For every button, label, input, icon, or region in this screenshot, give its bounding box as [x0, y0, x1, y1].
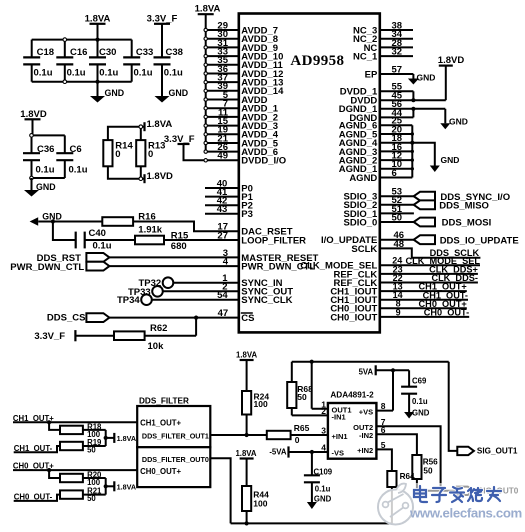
pin 22 wire / net CLK_DDS- [380, 273, 478, 283]
port SIG_OUT0 [457, 487, 519, 496]
svg-text:0.1u: 0.1u [164, 68, 183, 79]
wire DDS_RST to pin3 [109, 256, 238, 258]
wire R21 right [83, 494, 106, 496]
capacitor C33 0.1u [123, 40, 153, 82]
capacitor C36 0.1u [23, 135, 55, 178]
junction [51, 219, 55, 223]
junction dots cap bank [63, 38, 100, 84]
wire R44 bottom [246, 511, 248, 523]
port DDS_SYNC_I/O [414, 192, 510, 203]
svg-text:CS: CS [241, 313, 254, 324]
pin 24 wire / net CLK_MODE_SEL [380, 256, 481, 266]
ground (C38) [155, 88, 189, 103]
junction [47, 468, 51, 472]
pin 56 wire [380, 99, 446, 110]
svg-text:-IN2: -IN2 [359, 431, 373, 440]
wire AVDD vertical bus [205, 14, 207, 151]
resistor R56 50 [412, 455, 438, 479]
capacitor C30 0.1u [89, 40, 119, 82]
testpoint TP32 [138, 277, 173, 289]
port DDS_MISO [414, 200, 489, 211]
svg-text:GND: GND [314, 495, 332, 504]
pin 53 wire [380, 187, 414, 198]
svg-text:SIG_OUT1: SIG_OUT1 [477, 447, 518, 456]
wire R18 right [83, 429, 106, 431]
op-amp U2 ADA4891-2 body [328, 390, 377, 458]
wire R19 right [83, 445, 106, 447]
power 5VA [359, 365, 376, 376]
capacitor C18 0.1u [23, 40, 54, 82]
svg-text:1.8VA: 1.8VA [85, 13, 111, 24]
ground (C36 block) [24, 178, 56, 197]
svg-text:CH1_OUT+: CH1_OUT+ [140, 418, 181, 427]
wire to R18 [49, 422, 60, 430]
svg-text:1.91k: 1.91k [138, 225, 162, 236]
testpoint TP34 [117, 294, 152, 306]
junction [411, 107, 415, 111]
wire R20-R21 vertical [105, 478, 107, 495]
wires AVDD pin stubs with pin numbers [204, 20, 239, 162]
ground (DAC_RSET) [30, 212, 62, 226]
junction [391, 368, 395, 372]
junction [411, 98, 415, 102]
wire R18-R19 vertical [105, 430, 107, 446]
net CH0_OUT+ (left) [13, 462, 137, 471]
wire GND to R16 [38, 221, 102, 223]
resistor R64 [387, 471, 415, 487]
svg-text:DDS_MOSI: DDS_MOSI [442, 218, 492, 229]
svg-text:100: 100 [253, 498, 267, 508]
svg-text:C38: C38 [166, 47, 183, 58]
wire R14-R13 bottom bus [108, 166, 145, 178]
wire -5VA to -VS [289, 451, 328, 453]
svg-text:CH0_IOUT: CH0_IOUT [330, 312, 377, 323]
wire +IN2 to R64 [376, 449, 392, 471]
svg-text:GND: GND [169, 88, 189, 98]
ground (DGND) [440, 109, 468, 130]
wire OUT1 stub [312, 408, 328, 410]
resistor R62 10k [114, 323, 167, 352]
wire R64 bottom [391, 487, 393, 523]
svg-text:0.1u: 0.1u [67, 68, 86, 79]
svg-text:C16: C16 [70, 47, 87, 58]
IC left pin names [241, 25, 319, 324]
wire R56 bottom [416, 479, 418, 491]
pin number 17 [217, 222, 228, 233]
net DDS_FILTER_OUT0 wire [210, 458, 230, 523]
svg-text:TP34: TP34 [117, 295, 140, 306]
power 1.8VA (R13 top) [139, 119, 172, 131]
svg-text:R65: R65 [294, 423, 310, 433]
capacitor C69 0.1u [401, 370, 428, 412]
capacitor C109 0.1u [304, 452, 333, 502]
wire R24 bottom [246, 415, 248, 436]
svg-text:3: 3 [321, 426, 326, 436]
svg-text:ADA4891-2: ADA4891-2 [330, 390, 374, 399]
wire 3.3V_F to pin49 [184, 144, 205, 160]
wire TP34 to pin54 SYNC_CLK [152, 299, 239, 301]
wire TP32 to pin1 SYNC_IN [173, 282, 239, 284]
wires NC pins 38/34/28/32 [380, 20, 413, 57]
junction [104, 436, 108, 440]
junction [245, 521, 249, 525]
op-amp pin names [332, 405, 374, 457]
svg-text:SCLK: SCLK [351, 244, 377, 255]
wire TP33 to pin2 SYNC_OUT [163, 290, 239, 292]
wire C36/C6 bottom bus [32, 177, 65, 179]
pin 8 wire / net CH0_OUT+ [380, 299, 467, 309]
svg-text:0.1u: 0.1u [315, 485, 331, 494]
wire R62 to CS net [145, 335, 197, 337]
svg-text:0: 0 [295, 435, 300, 445]
power 3.3V_F (R62) [34, 330, 75, 342]
svg-text:PWR_DWN_CTL: PWR_DWN_CTL [10, 262, 84, 273]
block DDS_FILTER upper [137, 396, 210, 447]
ground (AGND) [412, 143, 459, 172]
power 1.8VA (R44) [235, 449, 256, 486]
svg-text:C69: C69 [412, 376, 427, 385]
op-amp pin numbers [321, 399, 386, 452]
wire 3.3V_F to R62 [75, 335, 114, 337]
svg-text:GND: GND [441, 155, 460, 165]
resistor R13 0 [136, 127, 165, 179]
svg-text:+IN2: +IN2 [357, 446, 373, 455]
svg-text:SYNC_CLK: SYNC_CLK [241, 295, 292, 306]
svg-text:DVDD_I/O: DVDD_I/O [241, 156, 286, 167]
wire CS pullup vertical [195, 318, 197, 336]
wire R15 to pin27 LOOP_FILTER [164, 239, 239, 241]
svg-text:GND: GND [449, 117, 468, 127]
svg-text:0.1u: 0.1u [134, 68, 153, 79]
resistor R18 100 [60, 422, 102, 439]
resistor R44 100 [242, 486, 269, 511]
svg-text:10k: 10k [148, 341, 165, 352]
power 1.8VD (DVDD) [438, 55, 465, 100]
ground (EP) [408, 73, 435, 85]
svg-text:0.1u: 0.1u [69, 164, 88, 175]
port SIG_OUT1 [457, 447, 518, 456]
svg-text:C18: C18 [37, 47, 54, 58]
svg-text:DDS_CS: DDS_CS [47, 313, 86, 324]
junction [194, 316, 198, 320]
svg-text:C40: C40 [89, 228, 106, 239]
wire OUT2 to SIG_OUT0 [376, 426, 440, 491]
wire -IN2 to R56 [376, 434, 417, 455]
junction [245, 433, 249, 437]
power 1.8VD (R13 bottom) [139, 171, 173, 183]
svg-text:DDS_MISO: DDS_MISO [439, 200, 489, 211]
junction [104, 484, 108, 488]
svg-text:0: 0 [148, 149, 153, 160]
pin 14 wire / net CH1_OUT- [380, 290, 468, 300]
svg-text:3.3V_F: 3.3V_F [147, 13, 178, 24]
svg-text:LOOP_FILTER: LOOP_FILTER [241, 235, 306, 246]
svg-text:GND: GND [412, 408, 430, 417]
svg-text:GND: GND [105, 88, 125, 98]
capacitor C40 0.1u [76, 228, 112, 252]
ground (cap bank) [90, 82, 124, 103]
pin 57 EP wire [380, 64, 414, 75]
svg-text:CH0_OUT+: CH0_OUT+ [140, 467, 181, 476]
svg-text:DDS_IO_UPDATE: DDS_IO_UPDATE [440, 235, 519, 246]
wires AGND pins with bus [380, 116, 414, 179]
svg-text:CH0_OUT-: CH0_OUT- [424, 308, 469, 318]
power 1.8VA (R20/R21) [106, 481, 136, 491]
svg-text:43: 43 [217, 204, 228, 215]
svg-text:+VS: +VS [359, 407, 373, 416]
pin 55 wire [380, 82, 414, 101]
power 1.8VA (R18/R19) [106, 433, 136, 443]
svg-text:C30: C30 [99, 47, 116, 58]
IC right pin names [300, 25, 378, 323]
pin 52 wire [380, 195, 414, 206]
resistor R15 680 [135, 230, 189, 252]
capacitor C38 0.1u [154, 47, 184, 96]
svg-text:www.elecfans.com: www.elecfans.com [409, 506, 522, 521]
power 1.8VA (R24) [236, 351, 257, 392]
net CH1_OUT- (left) [14, 444, 60, 453]
svg-text:AD9958: AD9958 [290, 53, 344, 69]
pin number 54 [217, 290, 228, 301]
wire bottom bus [32, 81, 132, 83]
power -5VA [269, 446, 288, 457]
resistor R68 50 [287, 362, 313, 416]
svg-text:1.8VA: 1.8VA [195, 4, 221, 15]
junction [310, 450, 314, 454]
resistor R20 100 [60, 470, 102, 487]
power 3.3V_F (DVDD_I/O) [164, 134, 195, 145]
port PWR_DWN_CTL [10, 262, 109, 273]
wires P0-P3 pin stubs with pin numbers [205, 178, 239, 215]
junction [310, 360, 314, 364]
svg-text:NC_1: NC_1 [353, 52, 378, 63]
svg-text:C109: C109 [314, 467, 333, 476]
wire 5VA to C69 [376, 369, 409, 371]
junction [47, 420, 51, 424]
ground (C69) [404, 408, 430, 418]
pin 9 wire / net CH0_OUT- [380, 307, 469, 317]
pin 13 wire / net CH1_OUT+ [380, 282, 467, 292]
svg-text:EP: EP [365, 69, 378, 80]
svg-text:50: 50 [423, 466, 433, 475]
port DDS_IO_UPDATE [414, 235, 519, 246]
wire C40 branch [53, 222, 76, 241]
resistor R19 50 [60, 438, 102, 455]
svg-text:DDS_FILTER_OUT1: DDS_FILTER_OUT1 [142, 431, 209, 440]
wire PWR_DWN_CTL to pin4 [109, 265, 238, 267]
svg-text:49: 49 [217, 151, 228, 162]
pin 45 wire [380, 91, 446, 102]
svg-text:1.8VA: 1.8VA [117, 434, 136, 443]
power 1.8VD (C36) [20, 109, 47, 135]
junction rings C36 [30, 134, 34, 180]
svg-text:0.1u: 0.1u [412, 397, 428, 406]
svg-text:9: 9 [396, 307, 401, 317]
svg-text:-IN1: -IN1 [332, 413, 346, 422]
svg-text:C36: C36 [37, 144, 54, 155]
resistor R21 50 [60, 486, 102, 503]
wire R14-R13 top bus [108, 127, 145, 140]
svg-text:5VA: 5VA [359, 368, 374, 377]
net CH1_OUT+ (left) [13, 414, 137, 423]
port DDS_RST [37, 253, 110, 264]
svg-text:C33: C33 [136, 47, 153, 58]
resistor R65 0 [267, 423, 310, 445]
wire OUT1 feedback vertical [311, 362, 313, 409]
power 3.3V_F (C38) [147, 13, 178, 57]
power 1.8VA (AVDD bus) [195, 4, 221, 15]
svg-text:1.8VD: 1.8VD [147, 171, 174, 182]
svg-text:DDS_FILTER_OUT0: DDS_FILTER_OUT0 [142, 455, 209, 464]
pin number 27 [217, 230, 228, 241]
svg-text:P3: P3 [241, 209, 253, 220]
pin number 3 [223, 248, 228, 259]
wire C40 to R15 [85, 239, 135, 241]
wire R16 to pin17 DAC_RSET [133, 222, 239, 232]
wire C36/C6 top bus [32, 134, 65, 136]
svg-text:SDIO_0: SDIO_0 [344, 217, 378, 228]
svg-text:3.3V_F: 3.3V_F [34, 331, 65, 342]
net CH0_OUT- (left) [14, 493, 60, 502]
svg-text:-VS: -VS [332, 449, 345, 458]
svg-text:680: 680 [171, 241, 187, 252]
resistor R16 1.91k [102, 212, 162, 236]
svg-text:DDS_FILTER: DDS_FILTER [139, 396, 189, 405]
wire feedback top [292, 361, 449, 363]
wire to SIG_OUT1 [449, 362, 458, 451]
capacitor C6 0.1u [56, 135, 87, 178]
pin 23 wire / net CLK_DDS+ [380, 264, 478, 274]
svg-text:0.1u: 0.1u [99, 68, 118, 79]
svg-text:-5VA: -5VA [269, 447, 287, 456]
svg-text:50: 50 [297, 392, 307, 402]
wire R65 to +IN1 [291, 434, 328, 436]
svg-text:48: 48 [394, 239, 405, 250]
pin 51 wire [380, 204, 414, 215]
svg-text:R62: R62 [150, 323, 167, 334]
resistor R14 0 [103, 140, 133, 166]
net DDS_FILTER_OUT1 wire [210, 434, 266, 436]
wire top bus [32, 39, 132, 41]
svg-text:+IN1: +IN1 [332, 432, 348, 441]
watermark elecfans logo and text [378, 483, 525, 525]
svg-text:C6: C6 [70, 144, 82, 155]
svg-text:3.3V_F: 3.3V_F [164, 134, 195, 145]
svg-text:1.8VA: 1.8VA [236, 351, 257, 360]
wire R68 to -IN1 [292, 414, 328, 416]
svg-text:R64: R64 [400, 472, 415, 481]
pin 50 wire [380, 212, 414, 223]
ground (C109) [307, 495, 332, 510]
IC U1 AD9958 body [239, 14, 380, 333]
svg-text:100: 100 [254, 399, 268, 409]
svg-text:0.1u: 0.1u [36, 164, 55, 175]
svg-text:0.1u: 0.1u [34, 68, 53, 79]
net SIG_OUT0 wire [417, 490, 457, 492]
wire R20 right [83, 477, 106, 479]
block DDS_FILTER lower [137, 447, 210, 487]
pin 46 wire [380, 230, 414, 241]
svg-text:GND: GND [417, 73, 436, 83]
testpoint TP33 [128, 286, 163, 298]
svg-text:AGND: AGND [349, 173, 377, 184]
pin number 47 [218, 308, 229, 319]
port DDS_CS [47, 313, 110, 324]
capacitor C16 0.1u [56, 40, 87, 82]
svg-text:50: 50 [392, 212, 403, 223]
junction [410, 141, 414, 145]
wire +VS vertical [376, 370, 393, 410]
svg-text:6: 6 [392, 168, 397, 179]
svg-text:1.8VA: 1.8VA [147, 119, 173, 130]
resistor R24 100 [242, 391, 269, 415]
pin number 1 [222, 273, 228, 284]
svg-text:1.8VD: 1.8VD [438, 55, 465, 66]
svg-text:1.8VD: 1.8VD [20, 109, 47, 120]
wire to R20 [49, 470, 60, 478]
port DDS_MOSI [414, 218, 492, 229]
svg-text:1.8VA: 1.8VA [117, 482, 136, 491]
power 1.8VA (cap bank) [85, 13, 111, 39]
svg-text:R56: R56 [423, 457, 438, 466]
svg-text:32: 32 [392, 47, 403, 58]
svg-text:1.8VA: 1.8VA [235, 449, 256, 458]
svg-text:57: 57 [392, 64, 403, 75]
wire DDS_CS to pin47 CS [109, 317, 238, 319]
svg-text:0.1u: 0.1u [93, 241, 112, 252]
svg-text:0: 0 [115, 149, 120, 160]
DDS_FILTER pin names [140, 418, 209, 476]
svg-text:GND: GND [36, 182, 56, 192]
wire bottom rail [231, 522, 392, 524]
junction [439, 489, 443, 493]
pin number 2 [222, 282, 227, 293]
pin 48 wire / net DDS_SCLK [380, 239, 481, 258]
pin 44 wire [380, 108, 414, 119]
pin number 4 [223, 257, 229, 268]
